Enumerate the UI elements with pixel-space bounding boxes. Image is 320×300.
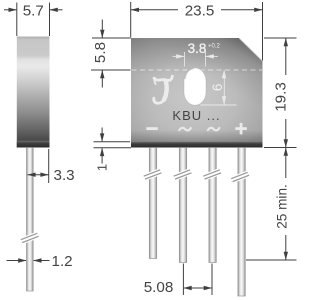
dashed center line	[132, 69, 263, 71]
breaks leads 1-3	[144, 170, 249, 182]
svg-text:19.3: 19.3	[273, 82, 290, 112]
plus symbol	[235, 127, 247, 130]
dimension 25 min	[246, 148, 297, 260]
tilde symbol 1	[179, 128, 191, 131]
svg-text:25 min.: 25 min.	[274, 184, 289, 229]
front lead 2	[179, 148, 186, 263]
body corner shading	[131, 38, 263, 148]
dimension 23.5	[131, 2, 263, 61]
dimension 3.8 (white)	[173, 52, 219, 67]
dimension 1.2	[7, 260, 50, 262]
dimension 19.3	[264, 38, 297, 148]
body top shading	[131, 38, 263, 75]
front bottom band	[131, 142, 263, 148]
svg-text:1: 1	[94, 164, 109, 171]
side lead break	[21, 233, 39, 242]
dimension 1	[94, 128, 132, 164]
front lead 1	[149, 148, 156, 259]
front view body	[131, 38, 263, 148]
svg-text:5.8: 5.8	[92, 42, 109, 63]
side view lead	[27, 148, 34, 292]
Diotec logo	[154, 76, 172, 103]
svg-text:23.5: 23.5	[185, 3, 215, 20]
minus symbol	[146, 127, 158, 130]
svg-text:+0.2: +0.2	[208, 44, 221, 50]
dimension 5.08	[183, 264, 212, 296]
svg-text:5.7: 5.7	[23, 3, 44, 20]
mounting hole	[184, 68, 206, 106]
side view bottom band	[17, 141, 50, 148]
svg-text:KBU ...: KBU ...	[172, 108, 220, 123]
svg-text:3.8: 3.8	[188, 41, 207, 56]
tilde symbol 2	[208, 128, 220, 131]
dimension 3.3	[28, 149, 49, 183]
svg-text:1.2: 1.2	[52, 253, 73, 270]
chamfer highlight	[239, 38, 262, 60]
break lead 4	[231, 172, 249, 181]
front lead 3	[209, 148, 216, 263]
svg-text:6: 6	[210, 84, 225, 92]
svg-text:3.3: 3.3	[54, 167, 75, 184]
svg-text:5.08: 5.08	[144, 279, 174, 296]
front lead 4	[238, 148, 245, 297]
side view body	[17, 37, 50, 148]
body pre-band shading	[131, 130, 263, 142]
dimension 5.7	[4, 3, 63, 37]
dimension 6 (white)	[201, 71, 237, 106]
dimension 5.8	[91, 20, 131, 88]
